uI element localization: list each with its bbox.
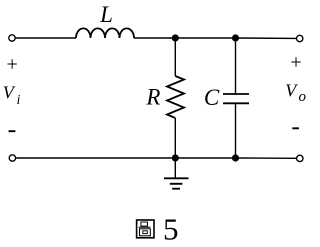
svg-text:L: L [99,2,113,27]
svg-text:+: + [7,54,18,76]
svg-text:5: 5 [163,212,179,247]
wire capacitor top lead [235,38,237,94]
caption character tu (figure) drawn as paths [137,220,154,238]
inductor L [76,28,134,38]
terminal output top (open circle) [297,35,303,41]
terminal input bottom (open circle) [9,155,15,161]
svg-text:+: + [290,52,301,74]
ground [164,158,189,189]
label - (output polarity) [292,127,299,129]
wire top-left (terminal to inductor) [16,37,76,39]
wire top-middle (inductor to node A) [134,37,175,39]
svg-text:C: C [204,85,220,110]
wire resistor top lead [174,38,176,76]
wire capacitor bottom lead [235,103,237,158]
wire bottom middle [175,157,235,159]
terminal input top (open circle) [9,35,15,41]
capacitor C [223,94,249,103]
node A (top junction at resistor) [172,34,179,41]
wire bottom-right [236,157,297,159]
label - (input polarity) [9,130,16,132]
terminal output bottom (open circle) [297,155,303,161]
resistor R [167,76,184,118]
svg-text:R: R [145,84,160,109]
node B (top junction at capacitor) [232,34,239,41]
wire top node A to node B [175,37,235,39]
wire bottom-left [16,157,175,159]
wire resistor bottom lead [174,118,176,158]
node D (bottom junction at capacitor) [232,154,239,161]
node C (bottom junction at resistor/ground) [172,154,179,161]
wire top-right (node B to output terminal) [236,37,297,39]
